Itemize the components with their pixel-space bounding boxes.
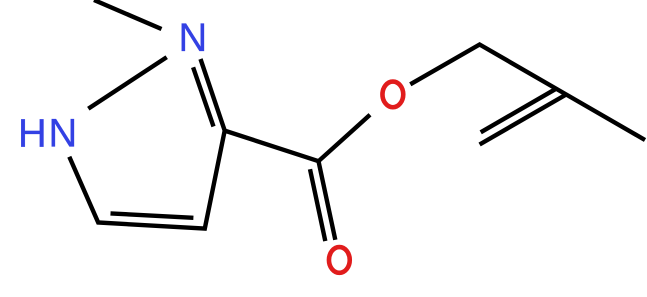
- wire N2=C3 partner: [193, 67, 213, 126]
- svg-text:N: N: [178, 16, 207, 60]
- wire C=O main: [319, 161, 336, 240]
- wire N-N diagonal: [88, 57, 166, 108]
- wire ring chain HN-C5-C4-C3-Cco-Oe: [69, 115, 370, 229]
- wire methallyl chain Oe-CH2-Cq-CH3: [410, 45, 645, 141]
- wire N2=C3 main: [201, 59, 225, 131]
- wire stub top: [94, 0, 162, 29]
- svg-text:N: N: [48, 112, 77, 156]
- wire C=O partner: [310, 169, 325, 241]
- node O carbonyl: [329, 247, 350, 273]
- wire Cq=CH2 partner: [481, 89, 555, 132]
- svg-text:H: H: [18, 112, 47, 156]
- node O ester: [382, 82, 403, 108]
- wire C5-C4 double partner: [111, 213, 194, 217]
- wire Cq=CH2 main: [480, 95, 567, 145]
